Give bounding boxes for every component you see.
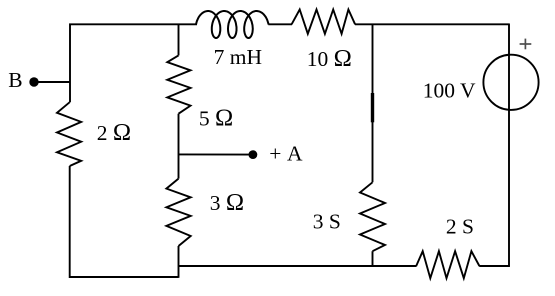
svg-text:10 Ω: 10 Ω — [307, 45, 352, 72]
svg-text:2 Ω: 2 Ω — [97, 119, 131, 146]
wire: middle rail top stub — [178, 24, 180, 55]
svg-text:2 S: 2 S — [446, 214, 474, 238]
resistor 3 S — [360, 182, 385, 251]
voltage source 100 V circle — [483, 55, 538, 110]
wire: top bus left segment — [70, 24, 197, 102]
svg-text:3 Ω: 3 Ω — [210, 189, 244, 216]
inductor 7 mH — [196, 11, 269, 38]
node B terminal stub — [34, 81, 71, 83]
wire: top bus right segment — [355, 23, 510, 25]
svg-text:5 Ω: 5 Ω — [199, 104, 233, 131]
svg-text:B: B — [8, 68, 22, 92]
wire: right-middle rail — [372, 24, 374, 183]
wire: left rail lower + bottom-left bus — [70, 166, 179, 277]
svg-text:7 mH: 7 mH — [214, 45, 262, 69]
wire: bottom-right bus right segment — [479, 265, 510, 267]
polarity plus of source — [520, 39, 532, 50]
wire: right rail — [508, 24, 510, 266]
node A dot — [249, 150, 258, 159]
wire: bottom-right bus left segment — [179, 265, 417, 267]
wire: middle rail between 5 ohm and 3 ohm — [178, 114, 180, 179]
resistor 2 ohm (left rail zigzag) — [57, 102, 81, 166]
svg-text:100 V: 100 V — [423, 79, 476, 103]
wire: 3 S bottom stub — [372, 251, 374, 267]
resistor 10 ohm — [292, 10, 356, 34]
svg-text:3 S: 3 S — [313, 209, 341, 233]
thick mark on right-middle rail — [371, 93, 374, 122]
resistor 2 S — [416, 251, 479, 278]
wire: top bus between inductor and 10 ohm — [268, 23, 292, 25]
resistor 3 ohm — [166, 179, 190, 246]
wire: middle rail bottom stub — [178, 246, 180, 278]
node B dot — [29, 77, 38, 86]
node A terminal stub — [179, 153, 253, 155]
svg-text:+ A: + A — [269, 141, 303, 165]
resistor 5 ohm — [167, 55, 190, 113]
